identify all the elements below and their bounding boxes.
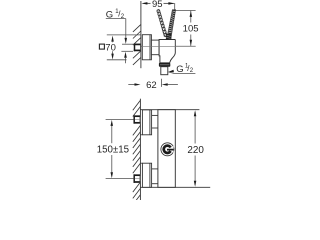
wall line, top view xyxy=(140,1,142,68)
svg-text:220: 220 xyxy=(187,145,204,156)
logo emblem on body xyxy=(161,143,174,156)
top union connector xyxy=(152,115,158,128)
mixer body, top view xyxy=(159,40,175,63)
extension line x=174.7 xyxy=(174,3,176,10)
top edge line y=109.7 xyxy=(140,109,199,111)
bottom escutcheon, front view xyxy=(140,163,151,187)
svg-text:95: 95 xyxy=(152,0,163,10)
dimension 105 xyxy=(183,11,199,46)
svg-text:62: 62 xyxy=(146,80,157,91)
svg-text:105: 105 xyxy=(183,23,199,34)
bottom supply nut, front view xyxy=(134,174,141,182)
top escutcheon, front view xyxy=(140,110,151,135)
hose right strand (striped) xyxy=(166,10,176,40)
svg-text:G: G xyxy=(176,64,183,75)
supply union nut, top view xyxy=(134,44,141,52)
escutcheon, top view xyxy=(142,35,151,60)
tick top of 105 xyxy=(176,10,196,12)
wall hatching, front view xyxy=(133,100,141,205)
bottom edge line y=187.3 xyxy=(140,186,210,188)
dimension 220 xyxy=(187,110,204,186)
svg-text:150±15: 150±15 xyxy=(97,145,129,156)
top supply nut, front view xyxy=(134,115,141,123)
wall hatching, top view xyxy=(133,24,141,65)
hose left strand (coil) xyxy=(157,9,168,37)
label G 1/2 top with leader xyxy=(106,9,134,44)
dimension 150 plus-minus 15 xyxy=(97,120,134,179)
dimension 62 xyxy=(128,79,178,91)
supply centerline overlay xyxy=(142,45,196,47)
bottom union connector xyxy=(152,169,158,184)
outlet nut, top view xyxy=(159,63,170,67)
mixer body, front view xyxy=(158,110,175,188)
dimension 95 top xyxy=(141,0,174,10)
supply centerline y=46.1 xyxy=(141,45,196,47)
union step, top view xyxy=(151,40,159,55)
wall line, front view xyxy=(139,99,141,200)
outlet tube, top view xyxy=(161,67,168,75)
G 1/2 pipe lower bracket xyxy=(121,51,133,63)
dimension square 70 xyxy=(99,35,140,60)
label G 1/2 outlet with leader xyxy=(168,63,195,75)
svg-text:70: 70 xyxy=(105,42,116,53)
